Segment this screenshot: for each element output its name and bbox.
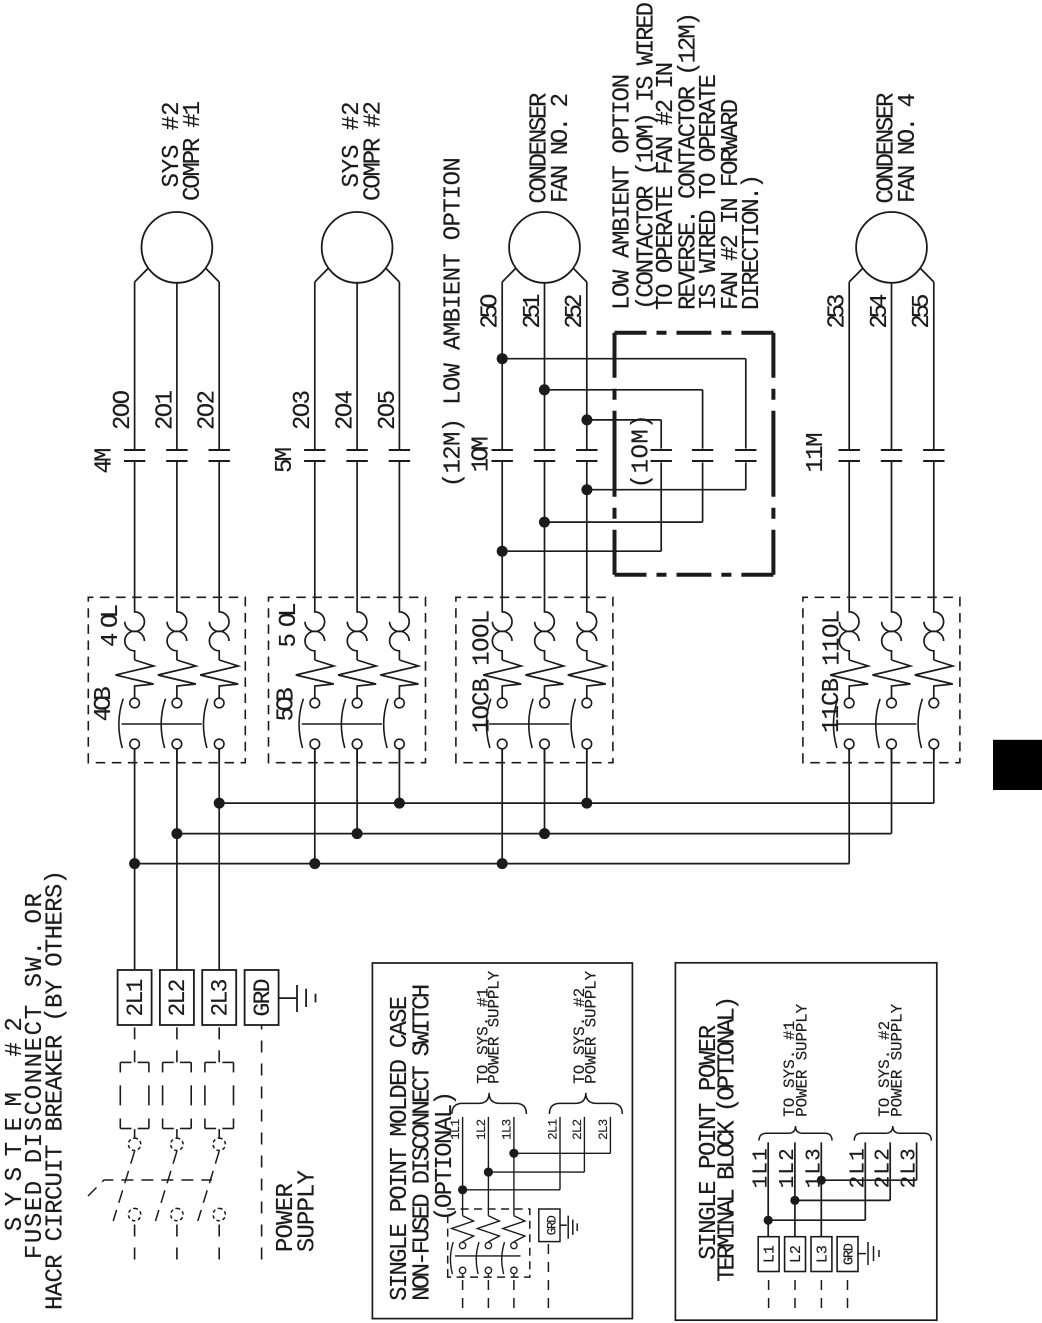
svg-text:11CB: 11CB <box>819 678 846 733</box>
svg-text:2L1: 2L1 <box>847 1148 870 1188</box>
svg-text:1OM: 1OM <box>468 436 495 472</box>
svg-text:252: 252 <box>562 294 589 329</box>
svg-text:4CB: 4CB <box>91 686 118 721</box>
svg-text:1OCB: 1OCB <box>470 678 497 733</box>
svg-text:L2: L2 <box>788 1245 805 1263</box>
svg-text:2L3: 2L3 <box>597 1119 611 1140</box>
svg-text:2L2: 2L2 <box>165 979 191 1017</box>
svg-text:1L3: 1L3 <box>803 1148 826 1188</box>
svg-text:HACR CIRCUIT BREAKER (BY OTHER: HACR CIRCUIT BREAKER (BY OTHERS) <box>42 870 69 1310</box>
svg-text:GRD: GRD <box>250 979 276 1017</box>
svg-text:(OPTIONAL): (OPTIONAL) <box>432 1091 459 1221</box>
svg-text:4M: 4M <box>92 448 119 474</box>
svg-text:255: 255 <box>909 294 936 329</box>
svg-text:1L3: 1L3 <box>501 1119 515 1140</box>
svg-text:DIRECTION.): DIRECTION.) <box>739 174 766 310</box>
svg-text:1L1: 1L1 <box>449 1119 463 1140</box>
svg-text:2L3: 2L3 <box>208 979 234 1017</box>
svg-text:1OOL: 1OOL <box>470 610 497 666</box>
svg-text:2L3: 2L3 <box>899 1148 922 1188</box>
svg-text:5M: 5M <box>272 447 299 473</box>
svg-text:L3: L3 <box>814 1245 831 1263</box>
svg-text:11M: 11M <box>803 433 830 473</box>
svg-text:5 OL: 5 OL <box>276 603 303 648</box>
svg-text:GRD: GRD <box>843 1243 858 1265</box>
svg-text:2L1: 2L1 <box>547 1119 561 1140</box>
svg-text:5CB: 5CB <box>274 687 301 721</box>
svg-text:TERMINAL BLOCK (OPTIONAL): TERMINAL BLOCK (OPTIONAL) <box>714 996 741 1282</box>
svg-text:POWER SUPPLY: POWER SUPPLY <box>582 970 600 1083</box>
svg-text:2L1: 2L1 <box>123 979 149 1017</box>
svg-text:LOW AMBIENT OPTION: LOW AMBIENT OPTION <box>609 74 636 310</box>
svg-text:POWER SUPPLY: POWER SUPPLY <box>889 1003 907 1116</box>
svg-text:COMPR #2: COMPR #2 <box>360 101 387 201</box>
svg-text:11OL: 11OL <box>820 610 847 666</box>
svg-text:(1OM): (1OM) <box>628 414 655 488</box>
svg-text:(12M) LOW AMBIENT OPTION: (12M) LOW AMBIENT OPTION <box>441 157 468 487</box>
svg-text:4 OL: 4 OL <box>98 604 125 647</box>
svg-text:2L2: 2L2 <box>872 1148 895 1188</box>
svg-text:251: 251 <box>520 294 547 329</box>
svg-text:253: 253 <box>825 294 852 329</box>
svg-text:1L2: 1L2 <box>475 1119 489 1140</box>
svg-text:2O3: 2O3 <box>290 390 317 430</box>
svg-text:25O: 25O <box>478 294 505 329</box>
svg-text:FAN NO. 2: FAN NO. 2 <box>548 93 575 203</box>
svg-text:GRD: GRD <box>545 1215 559 1235</box>
svg-text:L1: L1 <box>762 1245 779 1263</box>
svg-text:2O2: 2O2 <box>195 390 222 430</box>
svg-text:POWER SUPPLY: POWER SUPPLY <box>794 1003 812 1116</box>
svg-text:1L2: 1L2 <box>777 1148 800 1188</box>
svg-text:SUPPLY: SUPPLY <box>294 1170 321 1252</box>
svg-text:FAN NO. 4: FAN NO. 4 <box>895 93 922 203</box>
svg-text:2O5: 2O5 <box>375 390 402 430</box>
svg-text:2O1: 2O1 <box>152 390 179 430</box>
svg-text:254: 254 <box>867 294 894 329</box>
svg-text:2O4: 2O4 <box>333 390 360 430</box>
svg-text:COMPR #1: COMPR #1 <box>180 101 207 201</box>
svg-text:2L2: 2L2 <box>571 1119 585 1140</box>
svg-text:1L1: 1L1 <box>750 1148 773 1188</box>
svg-text:POWER SUPPLY: POWER SUPPLY <box>486 970 504 1083</box>
svg-text:2OO: 2OO <box>110 390 137 430</box>
